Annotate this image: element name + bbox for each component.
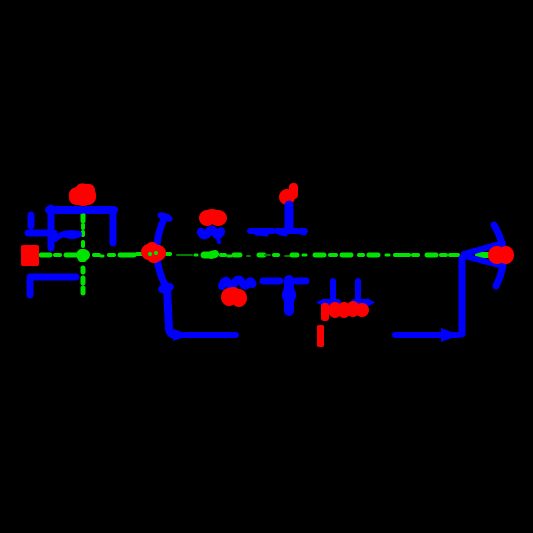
probe arm A2 foot <box>354 299 367 305</box>
housing top wire <box>49 206 81 214</box>
node axis-plane crossing <box>76 249 90 261</box>
source S1 (red square) <box>21 245 39 266</box>
aperture plate fringe <box>256 233 305 235</box>
label d (red scribble) <box>279 183 298 205</box>
label D1 (red scribble) <box>488 246 514 264</box>
arrowhead on bottom-left wire <box>173 329 191 341</box>
arrowhead A1 (left) <box>316 298 325 307</box>
lens plane (green dashed vertical) <box>81 212 86 293</box>
probe arm A1 vertical <box>330 281 336 298</box>
lens L1 (blue wavy) <box>201 230 221 235</box>
arrowhead on bottom-right wire <box>441 328 460 342</box>
detector D1 arc <box>494 225 504 286</box>
label L2 (red scribble) <box>221 287 247 307</box>
detector D1 lower cone line <box>464 256 503 266</box>
aperture plate wire <box>250 228 305 234</box>
chopper T stem <box>284 280 294 311</box>
wire from M1 down <box>167 289 176 335</box>
chopper T left arm <box>263 278 280 285</box>
label M1 (red scribble on axis) <box>141 242 166 263</box>
label L1 (red scribble) <box>199 209 227 226</box>
optical axis (green dashed horizontal) <box>41 254 489 256</box>
lower-left vertical wire <box>27 277 34 295</box>
concave mirror M1 (blue arc) <box>157 217 166 287</box>
wire bottom-right horizontal <box>395 332 458 338</box>
lens L1 tick <box>218 238 219 242</box>
chopper T right arm <box>296 278 306 285</box>
label S1 (red scribble) <box>69 183 96 206</box>
node axis dots in label <box>148 252 152 256</box>
wire bottom-left horizontal <box>176 332 236 338</box>
probe arm A2 vertical <box>355 281 361 298</box>
wire from D1 down <box>459 258 466 334</box>
label bar (red vertical stroke) <box>317 325 324 347</box>
upper-left hook wire <box>28 215 54 233</box>
housing right wire <box>110 212 117 243</box>
arrowhead A2 (right) <box>367 298 375 307</box>
housing left wire <box>48 208 55 248</box>
label text (red scribble word) <box>321 301 369 321</box>
lens L2 (blue wavy, below axis) <box>222 280 253 287</box>
housing top wire (right of gap) <box>86 206 114 214</box>
detector D1 upper cone line <box>464 243 503 254</box>
probe arm A1 foot <box>324 299 338 305</box>
inner swoosh wire <box>55 233 79 239</box>
aperture stem <box>285 205 294 227</box>
lower-left hook wire <box>30 274 76 281</box>
